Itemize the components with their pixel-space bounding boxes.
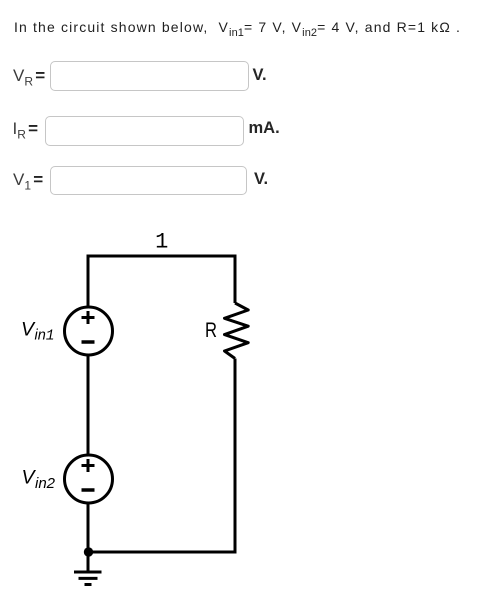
Vin2 plus sign (82, 459, 95, 472)
junction node dot (84, 547, 93, 556)
unit V. (row 1) (253, 66, 267, 85)
input box V1 (50, 166, 247, 195)
Vin1 minus sign (82, 340, 95, 344)
source Vin1 circle (65, 307, 113, 355)
ground stub (87, 552, 90, 571)
problem statement (14, 19, 461, 39)
wire: bottom horizontal (88, 551, 235, 554)
wire: top horizontal (88, 255, 235, 258)
wire: between the two sources (87, 355, 90, 455)
field label V1 (13, 170, 43, 192)
field label VR (13, 66, 45, 88)
svg-text:1: 1 (155, 230, 168, 255)
ground bar 3 (85, 583, 92, 586)
input box VR (50, 61, 249, 91)
input box IR (45, 116, 244, 146)
unit V. (row 3) (254, 170, 268, 189)
wire: Vin2 to bottom node (87, 503, 90, 552)
source Vin2 circle (65, 455, 113, 503)
svg-text:in2: in2 (35, 475, 56, 492)
ground bar 2 (79, 577, 98, 580)
unit mA. (row 2) (249, 119, 280, 138)
wire: right vertical top (234, 255, 237, 304)
resistor R zigzag (225, 303, 249, 359)
svg-text:R: R (205, 319, 217, 342)
Vin2 minus sign (82, 488, 95, 492)
Vin1 plus sign (82, 311, 95, 324)
ground bar 1 (74, 571, 102, 574)
field label IR (13, 119, 39, 141)
wire: right vertical bottom (234, 359, 237, 554)
svg-text:in1: in1 (35, 328, 55, 345)
wire: left vertical top (node 1 to Vin1) (87, 255, 90, 308)
